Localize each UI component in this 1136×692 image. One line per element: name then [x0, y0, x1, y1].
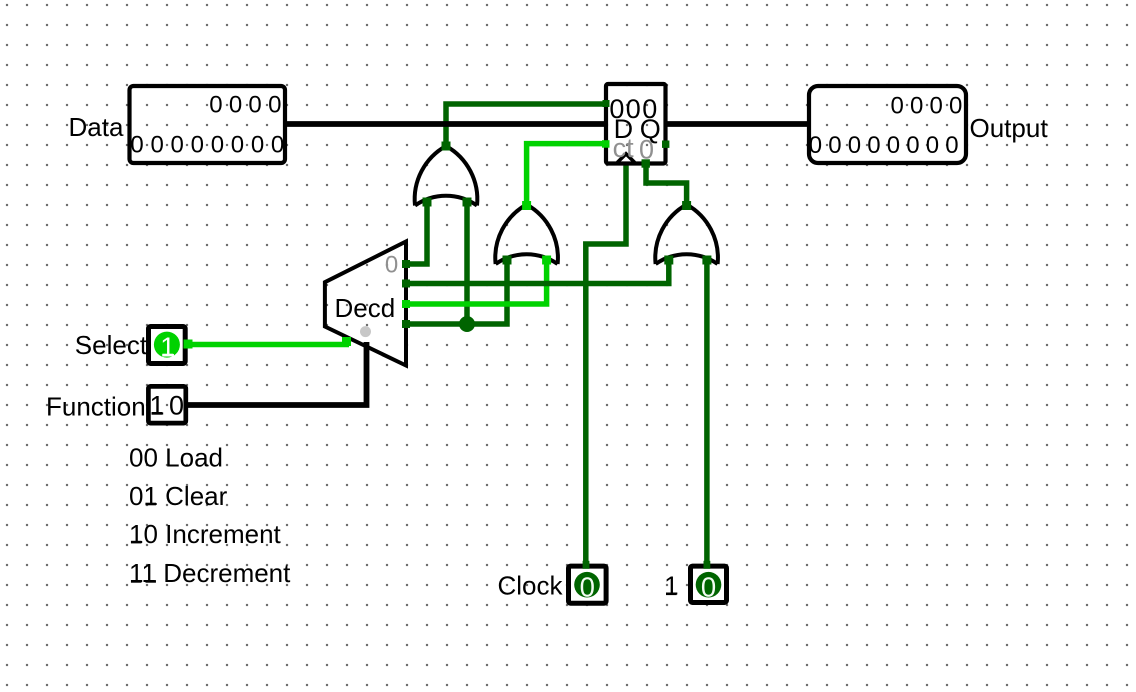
pin square: gate U2 tip [522, 201, 531, 210]
pin square: decoder pin1 [402, 280, 410, 288]
wire: Function input to decoder enable (black) [186, 342, 367, 405]
input pin Function [148, 386, 185, 423]
pin square: register load pin [603, 100, 610, 107]
svg-text:0: 0 [171, 132, 184, 159]
wire: Data bus (black) [287, 121, 604, 127]
svg-text:01 Clear: 01 Clear [129, 481, 228, 511]
svg-text:0: 0 [906, 132, 919, 159]
svg-text:0: 0 [809, 132, 822, 159]
svg-text:0: 0 [949, 93, 962, 120]
svg-text:Clock: Clock [497, 571, 563, 601]
svg-text:0: 0 [209, 92, 222, 119]
pin square: decoder select [342, 337, 351, 346]
pin square: gate U1 right input [463, 198, 472, 207]
svg-text:0: 0 [231, 132, 244, 159]
svg-text:0: 0 [229, 92, 242, 119]
bit1 value circle [696, 572, 722, 598]
svg-text:0: 0 [701, 571, 716, 602]
svg-text:1: 1 [664, 571, 678, 601]
output pin Output [809, 86, 966, 163]
pin square: gate U3 tip [682, 201, 691, 210]
wire: decoder pin1 to gate U3 left input [406, 257, 669, 284]
pin square: decoder pin3 [402, 320, 410, 328]
or-gate U3 [655, 205, 718, 265]
pin square: decoder pin0 [402, 260, 410, 268]
input pin bit1 [691, 566, 727, 602]
svg-text:0: 0 [248, 92, 261, 119]
wire: clock net from register clock pin to Clock input [586, 163, 626, 564]
svg-text:0: 0 [268, 92, 281, 119]
svg-text:Select: Select [75, 330, 148, 360]
svg-text:0: 0 [385, 252, 398, 279]
pin square: gate U1 tip [442, 142, 451, 151]
svg-text:ct: ct [613, 133, 635, 163]
svg-text:Output: Output [970, 113, 1049, 143]
decoder select marker dot [360, 326, 371, 337]
svg-text:0: 0 [130, 132, 143, 159]
svg-text:0: 0 [848, 132, 861, 159]
pin square: gate U2 left input [503, 256, 512, 265]
svg-text:0: 0 [169, 391, 184, 421]
svg-text:Data: Data [69, 112, 124, 142]
or-gate U2 [495, 205, 558, 265]
wire: gate U1 output to register load pin (dark green) [446, 104, 604, 146]
pin square: bit1 input top [704, 561, 711, 569]
input pin Select [149, 327, 186, 364]
svg-text:0: 0 [887, 132, 900, 159]
svg-text:0: 0 [639, 135, 654, 165]
wire: gate U3 right input down to input pin [704, 257, 710, 564]
wire: decoder pin2 to gate U2 right input (bright green) [406, 257, 547, 304]
svg-text:0: 0 [211, 132, 224, 159]
svg-text:0: 0 [891, 93, 904, 120]
wire: decoder pin0 to gate U1 left input [406, 199, 427, 264]
input pin Data [130, 86, 286, 163]
decoder Decd [325, 242, 406, 366]
svg-text:0: 0 [867, 132, 880, 159]
wire: register Q to Output bus (black) [666, 121, 807, 127]
svg-text:0: 0 [945, 132, 958, 159]
junction at decoder pin3 / gate U1 right input [459, 316, 475, 332]
wire: gate U2 output to register ct pin (bright green) [527, 144, 604, 206]
svg-text:0: 0 [828, 132, 841, 159]
svg-text:1: 1 [160, 332, 175, 362]
svg-text:Function: Function [46, 391, 146, 421]
svg-text:0: 0 [910, 93, 923, 120]
register clock wedge [617, 154, 634, 163]
svg-text:Decd: Decd [335, 293, 396, 323]
pin square: register carry pin (unconnected) [662, 141, 669, 148]
pin square: gate U1 left input [423, 198, 432, 207]
svg-text:0: 0 [271, 132, 284, 159]
or-gate U1 [415, 146, 478, 206]
wire: decoder pin3 to gate U2 left input [406, 257, 507, 324]
pin square: register bottom pin [642, 159, 650, 167]
register/counter U4 [606, 84, 666, 164]
pin square: decoder pin2 [402, 300, 410, 308]
svg-text:10 Increment: 10 Increment [129, 519, 282, 549]
pin square: register ct pin [602, 140, 610, 148]
serif foot bars for digit 1 glyphs [131, 354, 677, 595]
wire: Select input to decoder select pin (bright green) [186, 342, 349, 348]
input pin Clock [569, 566, 607, 603]
svg-text:0: 0 [151, 132, 164, 159]
pin square: gate U2 right input [542, 256, 551, 265]
Clock value circle [574, 572, 600, 598]
wire: gate U1 right input down to junction [464, 199, 470, 324]
svg-text:0: 0 [926, 132, 939, 159]
svg-text:0: 0 [580, 571, 595, 602]
pin square: select wire at box [184, 340, 193, 349]
svg-text:0: 0 [251, 132, 264, 159]
pin square: gate U3 left input [664, 256, 673, 265]
svg-text:1: 1 [149, 391, 164, 421]
svg-text:11 Decrement: 11 Decrement [129, 558, 291, 588]
svg-text:0: 0 [191, 132, 204, 159]
svg-text:0: 0 [930, 93, 943, 120]
pin square: clock input top [583, 561, 590, 569]
pin square: gate U3 right input [702, 256, 711, 265]
wire: register bottom pin to gate U3 output [646, 165, 687, 206]
svg-text:00 Load: 00 Load [129, 443, 223, 473]
Select value circle [154, 332, 180, 358]
